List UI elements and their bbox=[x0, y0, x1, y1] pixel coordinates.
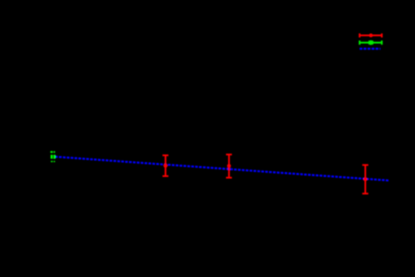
blue dashed fit line bbox=[55, 157, 389, 181]
red marker 2 bbox=[227, 164, 231, 168]
red errorbar 3 bbox=[362, 165, 368, 194]
green errorbar 1 top cap bbox=[50, 151, 52, 153]
legend red marker bbox=[369, 34, 373, 38]
green errorbar 2 top cap bbox=[54, 151, 56, 153]
legend green star marker bbox=[369, 40, 373, 45]
green star marker 1 bbox=[51, 155, 53, 159]
legend blue dashed sample bbox=[360, 48, 381, 50]
legend red errorbar sample bbox=[360, 33, 382, 37]
red errorbar 2 bbox=[226, 155, 232, 178]
green errorbar 2 bottom cap bbox=[54, 161, 56, 163]
green star marker 2 bbox=[53, 155, 55, 159]
green errorbar 1 bottom cap bbox=[51, 161, 53, 163]
legend green errorbar sample bbox=[360, 41, 382, 45]
red marker 1 bbox=[164, 164, 168, 168]
red errorbar 1 bbox=[163, 155, 169, 176]
red marker 3 bbox=[363, 177, 367, 181]
